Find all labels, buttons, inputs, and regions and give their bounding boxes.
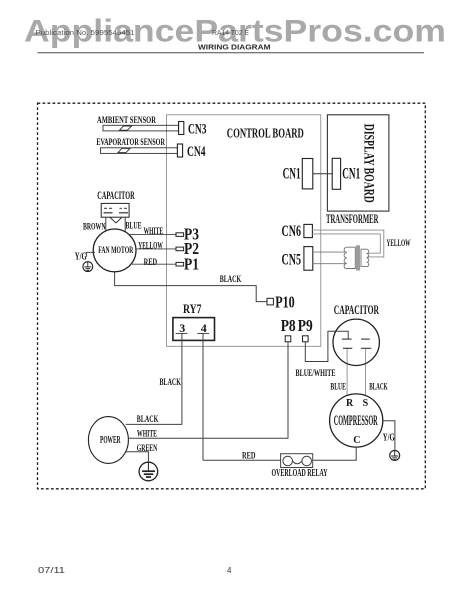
wire CN5 to transformer top [313,251,347,253]
svg-text:RED: RED [242,451,256,461]
svg-text:FAN MOTOR: FAN MOTOR [98,245,133,255]
wire CN5 to transformer bottom [313,263,347,265]
wire RY7-4 to red [202,333,204,460]
terminal 3 bar [176,332,188,334]
ambient sensor twist mark [120,126,132,130]
wire black capacitor to compressor [365,348,367,396]
fan capacitor plates [104,207,107,209]
svg-text:OVERLOAD RELAY: OVERLOAD RELAY [272,468,328,479]
transformer core [356,245,358,270]
right capacitor plates [361,338,370,340]
svg-text:P10: P10 [275,293,295,312]
svg-text:CN1: CN1 [283,165,301,182]
svg-text:WHITE: WHITE [137,428,157,438]
connector CN5 [304,247,313,271]
transformer primary coil [347,247,356,268]
wire compressor to ground [383,421,395,451]
connector P10 [267,298,273,305]
overload relay element [293,461,302,464]
svg-text:Publication No. 5995545451: Publication No. 5995545451 [36,30,135,37]
svg-text:CN3: CN3 [188,122,207,138]
svg-text:BROWN: BROWN [83,221,106,231]
svg-text:DISPLAY BOARD: DISPLAY BOARD [361,124,377,203]
wire white power [128,437,288,439]
compressor ground symbol [390,450,400,460]
wire CN6 yellow loop inner [312,234,380,253]
svg-text:POWER: POWER [100,434,121,446]
transformer secondary coil [361,249,367,266]
wire black power [126,423,183,425]
evaporator sensor probe bar [101,148,178,154]
svg-text:P8: P8 [281,316,296,335]
connector CN1 control board [302,159,313,189]
svg-text:P9: P9 [298,316,313,335]
evaporator sensor twist mark [118,148,130,152]
terminal 4 bar [197,332,209,334]
svg-text:EVAPORATOR SENSOR: EVAPORATOR SENSOR [96,137,165,148]
left capacitor plates [342,338,352,340]
connector CN4 [177,144,182,157]
svg-text:CN4: CN4 [187,144,206,160]
svg-text:CAPACITOR: CAPACITOR [334,302,380,317]
wire blue [124,217,126,232]
svg-text:BLACK: BLACK [220,274,242,284]
ambient sensor probe bar [103,125,179,131]
svg-text:CONTROL BOARD: CONTROL BOARD [227,126,304,141]
connector P1 [176,262,184,266]
wire CN6 yellow loop outer [312,230,384,257]
svg-text:4: 4 [201,321,207,335]
relay RY7 box [173,318,215,341]
wire blue capacitor to compressor [346,348,348,396]
svg-text:Y/G: Y/G [383,433,395,444]
svg-text:BLACK: BLACK [137,414,159,424]
svg-text:RED: RED [144,257,158,267]
wire green power to ground [126,452,148,463]
svg-text:BLACK: BLACK [160,377,182,387]
svg-text:YELLOW: YELLOW [387,239,411,249]
svg-text:CAPACITOR: CAPACITOR [97,190,135,202]
svg-text:Y/G: Y/G [75,252,87,263]
svg-text:S: S [363,398,369,409]
wire CN1 to CN1 [313,173,332,175]
wire P9 to capacitor [305,331,348,361]
svg-text:3: 3 [179,321,185,335]
overload relay box [281,454,313,468]
header rule line [38,52,425,54]
power circle [88,417,128,464]
svg-text:CN5: CN5 [282,251,302,268]
wire white fan to P3 [129,234,177,236]
connector P8 [285,336,291,342]
connector P2 [176,247,184,251]
svg-text:CN6: CN6 [282,223,302,240]
wire red to overload relay [203,459,281,461]
connector CN3 [179,122,184,135]
svg-text:P1: P1 [184,254,199,273]
svg-text:07/11: 07/11 [38,566,66,575]
wire P8 to white [287,342,289,439]
connector P9 [303,336,309,342]
control board outline [167,115,321,346]
svg-text:RA14 T02 E: RA14 T02 E [212,30,249,37]
power ground symbol [139,462,158,481]
fan ground symbol [83,262,93,272]
compressor circle [330,394,383,447]
svg-text:BLUE: BLUE [330,383,346,393]
overload relay right contact [302,456,312,466]
compressor capacitor circle [333,319,379,365]
wire brown [105,217,107,233]
overload relay left contact [283,456,293,466]
svg-text:R: R [346,398,354,409]
svg-text:4: 4 [227,566,232,575]
fan motor circle [93,229,136,272]
wire fan ground elbow [87,252,95,256]
display board outline [327,115,389,211]
svg-text:C: C [353,435,360,446]
wire compressor C to overload relay [313,447,356,460]
wire yellow fan to P2 [136,248,176,250]
svg-text:CN1: CN1 [342,165,360,182]
svg-text:BLUE/WHITE: BLUE/WHITE [296,369,336,379]
svg-text:WIRING DIAGRAM: WIRING DIAGRAM [198,42,271,51]
outer dashed border [38,103,426,489]
connector P3 [176,233,184,237]
wire black fan motor to P10 [115,272,267,302]
svg-text:AMBIENT SENSOR: AMBIENT SENSOR [97,115,157,126]
fan capacitor box [101,203,129,217]
svg-text:COMPRESSOR: COMPRESSOR [334,413,378,429]
svg-text:TRANSFORMER: TRANSFORMER [326,211,379,226]
connector CN6 [304,224,313,237]
connector CN1 display board [332,158,340,189]
svg-text:BLUE: BLUE [126,221,142,231]
svg-text:RY7: RY7 [183,302,202,316]
svg-text:BLACK: BLACK [369,383,388,393]
wire RY7-3 to power black [181,333,183,424]
capacitor V notch [110,217,122,223]
wire red fan to P1 [132,263,176,265]
